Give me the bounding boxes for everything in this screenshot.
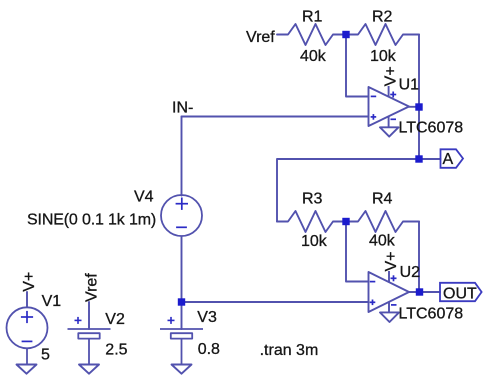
net flag A bbox=[441, 149, 464, 168]
wire node A to flag A bbox=[422, 158, 441, 160]
svg-text:V+: V+ bbox=[383, 66, 400, 86]
wire node A left and down to R3 bbox=[277, 159, 419, 222]
svg-text:V1: V1 bbox=[42, 293, 62, 310]
svg-text:0.8: 0.8 bbox=[198, 341, 220, 358]
svg-text:V+: V+ bbox=[383, 251, 400, 271]
svg-text:R4: R4 bbox=[372, 190, 393, 207]
voltage source V1 bbox=[7, 307, 48, 364]
battery V2 plus mark bbox=[75, 317, 82, 324]
op-amp U2 supply minus mark bbox=[391, 304, 397, 306]
wire R4 down to U2 output node bbox=[418, 222, 420, 293]
svg-text:R2: R2 bbox=[372, 8, 393, 25]
svg-text:V3: V3 bbox=[197, 309, 217, 326]
wire V4 to V3 node bbox=[181, 237, 183, 303]
junction R1-R2 node bbox=[342, 31, 349, 38]
svg-text:Vref: Vref bbox=[246, 29, 275, 46]
svg-text:R1: R1 bbox=[302, 8, 323, 25]
svg-text:LTC6078: LTC6078 bbox=[399, 306, 464, 323]
svg-text:V+: V+ bbox=[21, 272, 38, 292]
resistor R3 bbox=[277, 211, 346, 232]
svg-text:V4: V4 bbox=[134, 189, 154, 206]
wire V+ flag to V1 bbox=[26, 292, 28, 307]
op-amp U1 input plus mark bbox=[371, 116, 377, 118]
ground under V1 bbox=[17, 365, 37, 374]
op-amp U1 supply plus mark bbox=[390, 94, 396, 96]
svg-text:SINE(0 0.1 1k 1m): SINE(0 0.1 1k 1m) bbox=[27, 212, 156, 229]
wire U2 output to flag OUT bbox=[423, 291, 441, 293]
svg-text:R3: R3 bbox=[302, 190, 323, 207]
svg-text:A: A bbox=[443, 151, 454, 168]
wire right rail R2 to node A bbox=[418, 35, 420, 160]
junction node A bbox=[415, 155, 422, 162]
V1 minus mark bbox=[22, 340, 33, 342]
junction U2 output bbox=[416, 288, 423, 295]
battery V3 bbox=[160, 329, 203, 364]
op-amp U2 supply plus mark bbox=[391, 277, 397, 279]
wire R3-R4 junction to U2 inverting input bbox=[346, 224, 369, 282]
resistor R2 bbox=[350, 24, 419, 45]
resistor R4 bbox=[350, 211, 419, 232]
net flag OUT bbox=[440, 283, 482, 301]
junction U1 output bbox=[415, 103, 422, 110]
svg-text:.tran 3m: .tran 3m bbox=[260, 342, 319, 359]
wire V3 node to battery V3 bbox=[181, 302, 183, 329]
svg-text:U1: U1 bbox=[399, 76, 420, 93]
svg-text:V2: V2 bbox=[105, 311, 125, 328]
op-amp U1 input minus mark bbox=[371, 92, 397, 120]
op-amp U2 input minus mark bbox=[370, 275, 397, 305]
battery V3 plus mark bbox=[168, 317, 175, 324]
svg-text:5: 5 bbox=[41, 347, 50, 364]
svg-text:OUT: OUT bbox=[443, 285, 477, 302]
svg-text:2.5: 2.5 bbox=[105, 342, 127, 359]
junction V3 node bbox=[178, 298, 185, 305]
wire IN- down to V4 bbox=[181, 117, 183, 196]
wire R1-R2 junction to U1 inverting input bbox=[346, 37, 369, 97]
V4 minus mark bbox=[176, 226, 187, 228]
op-amp U2 input plus mark bbox=[370, 301, 376, 303]
svg-text:10k: 10k bbox=[370, 48, 397, 65]
ground under U2 bbox=[380, 312, 399, 322]
op-amp U2 bbox=[369, 271, 410, 312]
V4 plus mark bbox=[176, 198, 188, 228]
ground under V2 bbox=[79, 365, 99, 374]
wire Vref flag to battery V2 bbox=[88, 302, 90, 329]
junction R3-R4 node bbox=[342, 218, 349, 225]
svg-text:40k: 40k bbox=[369, 233, 396, 250]
op-amp U1 supply minus mark bbox=[391, 118, 397, 120]
op-amp U1 bbox=[369, 86, 410, 127]
wire U1 output stub bbox=[409, 106, 419, 108]
battery V2 bbox=[68, 329, 111, 364]
ground under V3 bbox=[172, 365, 192, 374]
V1 plus mark bbox=[21, 311, 33, 342]
svg-text:U2: U2 bbox=[400, 264, 421, 281]
svg-text:Vref: Vref bbox=[84, 273, 101, 302]
ground under U1 bbox=[380, 127, 399, 136]
wire V3 node to U2 non-inverting input bbox=[182, 301, 369, 303]
svg-text:LTC6078: LTC6078 bbox=[399, 119, 464, 136]
wire IN- to U1 non-inverting input bbox=[182, 116, 369, 118]
svg-text:40k: 40k bbox=[300, 48, 327, 65]
resistor R1 bbox=[277, 24, 346, 45]
wire U2 output stub bbox=[409, 291, 419, 293]
svg-text:10k: 10k bbox=[301, 233, 328, 250]
svg-text:IN-: IN- bbox=[172, 100, 193, 117]
voltage source V4 bbox=[161, 195, 202, 236]
